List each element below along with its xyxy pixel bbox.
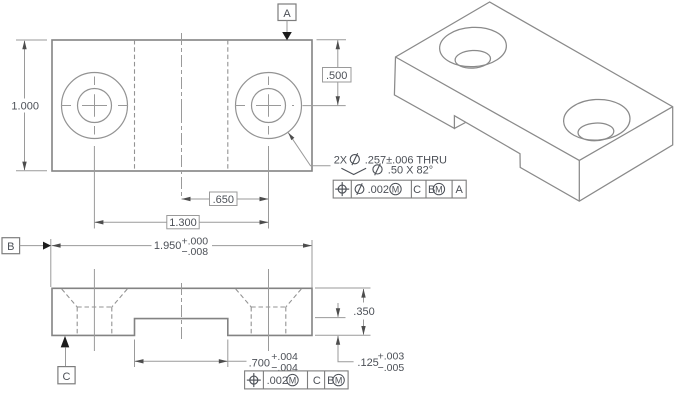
- svg-text:2X: 2X: [334, 155, 348, 167]
- svg-text:.700: .700: [249, 358, 270, 370]
- svg-text:1.950: 1.950: [154, 240, 182, 252]
- svg-text:1.300: 1.300: [169, 217, 197, 229]
- svg-text:1.000: 1.000: [11, 101, 39, 113]
- svg-text:M: M: [392, 184, 400, 194]
- svg-text:−.008: −.008: [182, 246, 209, 258]
- svg-text:C: C: [413, 184, 421, 196]
- svg-text:.650: .650: [213, 194, 234, 206]
- svg-text:M: M: [289, 375, 297, 385]
- svg-text:+.003: +.003: [378, 351, 405, 363]
- svg-text:M: M: [335, 375, 343, 385]
- svg-text:.500: .500: [326, 70, 347, 82]
- svg-text:−.005: −.005: [378, 362, 405, 374]
- svg-text:.002: .002: [267, 375, 288, 387]
- svg-text:C: C: [63, 371, 71, 383]
- svg-text:C: C: [313, 375, 321, 387]
- svg-text:.125: .125: [357, 357, 378, 369]
- svg-text:.002: .002: [368, 184, 389, 196]
- svg-text:A: A: [456, 184, 464, 196]
- svg-text:M: M: [435, 184, 443, 194]
- svg-text:A: A: [283, 8, 291, 20]
- svg-text:.50 X 82°: .50 X 82°: [388, 165, 433, 177]
- svg-text:−.004: −.004: [271, 362, 298, 374]
- svg-text:B: B: [7, 241, 14, 253]
- svg-text:.350: .350: [353, 306, 374, 318]
